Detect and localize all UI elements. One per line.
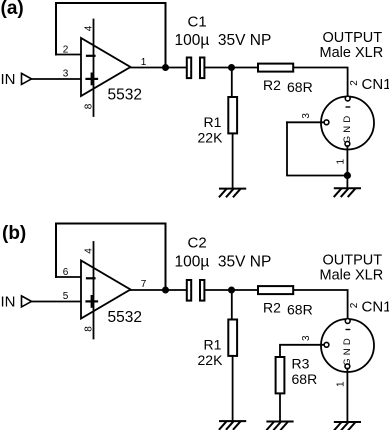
ground (under R3) <box>267 422 293 430</box>
svg-text:R1: R1 <box>204 114 222 130</box>
junction node A (output/feedback) <box>162 64 169 71</box>
svg-text:1: 1 <box>141 57 147 68</box>
svg-text:GND: GND <box>342 335 353 366</box>
svg-text:OUTPUT: OUTPUT <box>323 253 383 269</box>
svg-text:100µ 35V NP: 100µ 35V NP <box>175 32 272 49</box>
GND contact (CN1 b) <box>345 364 350 369</box>
op-amp U1b power rail <box>93 242 95 339</box>
svg-text:68R: 68R <box>287 302 313 318</box>
svg-text:8: 8 <box>84 103 95 109</box>
svg-text:R1: R1 <box>204 337 222 353</box>
svg-text:3: 3 <box>301 113 312 119</box>
ground (under R1) <box>220 189 246 197</box>
svg-text:4: 4 <box>84 248 95 254</box>
svg-text:22K: 22K <box>198 352 224 368</box>
resistor R1 <box>228 97 237 133</box>
wire R3 to ground <box>279 394 281 421</box>
wire XLR pin3 <box>287 121 324 123</box>
svg-text:5532: 5532 <box>108 87 142 104</box>
wire node E to R2 (b) <box>232 289 258 291</box>
wire pin5 input <box>31 301 81 303</box>
svg-text:2: 2 <box>349 302 360 308</box>
wire U1b output <box>131 289 186 291</box>
wire pin6 input <box>56 276 81 278</box>
svg-text:R2: R2 <box>263 77 281 93</box>
svg-text:IN: IN <box>1 71 16 88</box>
wire feedback loop U1b (pin7 to pin6) <box>56 224 166 291</box>
svg-text:2: 2 <box>349 80 360 86</box>
svg-text:5532: 5532 <box>108 309 142 326</box>
wire XLR pin3 to R3 <box>280 345 324 357</box>
svg-text:R3: R3 <box>292 356 310 372</box>
op-amp U1a minus sign <box>87 55 95 57</box>
svg-text:6: 6 <box>63 267 69 278</box>
input port arrow IN (b) <box>22 296 32 307</box>
junction node C (shell/pin3 ground) <box>344 172 351 179</box>
op-amp U1b plus sign <box>87 300 98 302</box>
wire R1 to ground (b) <box>232 357 234 421</box>
wire CN1 shell to ground node <box>346 146 348 175</box>
junction node B (C1/R1/R2) <box>228 64 235 71</box>
pin 3 contact (CN1 b) <box>324 342 329 347</box>
pin 2 contact (CN1) <box>345 96 350 101</box>
resistor R3 <box>276 357 285 393</box>
op-amp U1a triangle <box>81 38 131 96</box>
op-amp U1b minus sign <box>87 277 95 279</box>
ground (under CN1) <box>334 188 360 196</box>
GND contact (CN1) <box>345 141 350 146</box>
capacitor C1 <box>187 58 191 79</box>
wire node B to R2 <box>232 67 258 69</box>
wire feedback loop U1a (pin1 to pin2) <box>56 3 166 68</box>
svg-text:3: 3 <box>301 335 312 341</box>
svg-text:C1: C1 <box>188 14 207 31</box>
connector CN1 body (XLR circle b) <box>321 319 374 372</box>
wire pin2 input <box>56 54 81 56</box>
resistor R2 (b) <box>258 286 293 294</box>
resistor R1 (b) <box>228 320 237 356</box>
svg-text:8: 8 <box>84 326 95 332</box>
svg-text:1: 1 <box>336 381 347 387</box>
svg-text:R2: R2 <box>263 300 281 316</box>
resistor R2 <box>258 64 293 72</box>
svg-text:4: 4 <box>84 25 95 31</box>
op-amp U1a plus sign <box>87 78 98 80</box>
svg-text:IN: IN <box>1 293 16 310</box>
svg-text:68R: 68R <box>287 79 313 95</box>
ground (under R1 b) <box>220 421 246 429</box>
op-amp U1b triangle <box>81 261 131 319</box>
ground (under CN1 b) <box>334 422 360 430</box>
pin 2 contact (CN1 b) <box>345 319 350 324</box>
wire R2 to XLR pin2 corner <box>294 68 347 97</box>
wire pin3 loop to ground node <box>287 122 347 175</box>
op-amp U1a power rail <box>93 20 95 117</box>
input port arrow IN <box>22 73 32 84</box>
junction node D (output/feedback b) <box>162 287 169 294</box>
wire R1 to ground <box>232 134 234 188</box>
pin 2 tick mark inside CN1 <box>346 106 349 108</box>
svg-text:22K: 22K <box>198 130 224 146</box>
wire node B to R1 <box>231 68 233 97</box>
svg-text:3: 3 <box>63 69 69 80</box>
wire pin3 input <box>31 78 81 80</box>
svg-text:C2: C2 <box>188 235 207 252</box>
svg-text:CN1: CN1 <box>362 76 389 93</box>
connector CN1 body (XLR circle) <box>321 97 374 150</box>
pin 3 contact (CN1) <box>324 120 329 125</box>
wire C2 to node E <box>205 289 231 291</box>
wire R2 to XLR pin2 corner (b) <box>294 290 347 319</box>
svg-text:Male XLR: Male XLR <box>320 45 384 61</box>
svg-text:GND: GND <box>342 113 353 144</box>
capacitor C2 <box>187 280 191 301</box>
svg-text:(a): (a) <box>1 0 24 19</box>
svg-text:OUTPUT: OUTPUT <box>323 30 383 46</box>
svg-text:1: 1 <box>336 159 347 165</box>
svg-text:(b): (b) <box>2 223 26 244</box>
svg-text:5: 5 <box>63 291 69 302</box>
svg-text:CN1: CN1 <box>362 299 389 316</box>
svg-text:7: 7 <box>141 279 147 290</box>
wire U1a output <box>131 67 186 69</box>
svg-text:68R: 68R <box>292 371 318 387</box>
wire node C to ground <box>346 176 348 189</box>
wire node E to R1 <box>231 290 233 319</box>
junction node E (C2/R1/R2) <box>228 287 235 294</box>
svg-text:2: 2 <box>63 45 69 56</box>
wire CN1 shell to ground (b) <box>346 369 348 422</box>
pin 2 tick mark inside CN1 (b) <box>346 329 349 331</box>
wire C1 to node B <box>205 67 231 69</box>
svg-text:Male XLR: Male XLR <box>320 267 384 283</box>
svg-text:100µ 35V NP: 100µ 35V NP <box>175 254 272 271</box>
